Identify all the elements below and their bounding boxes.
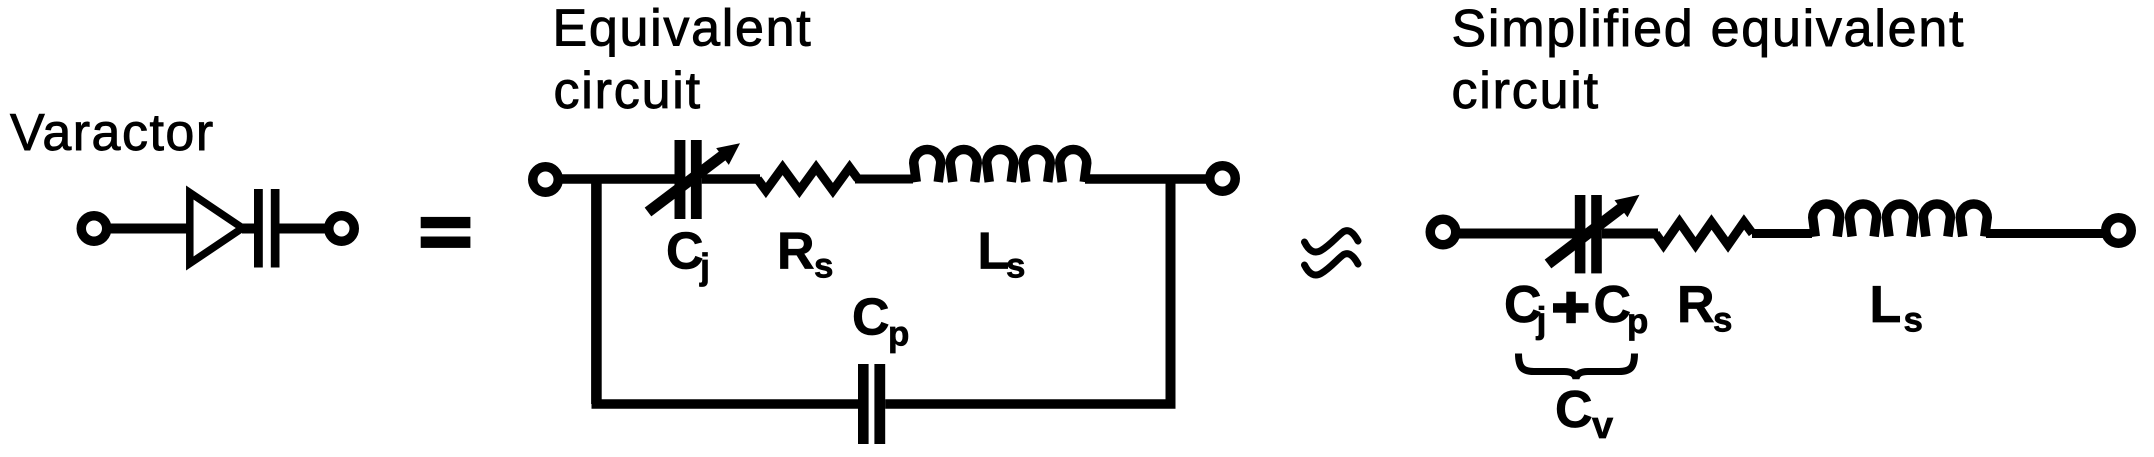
- simplified circuit: left terminal: [1430, 219, 1456, 245]
- svg-text:circuit: circuit: [1452, 62, 1600, 120]
- wire: [855, 175, 913, 184]
- wire: [1456, 229, 1576, 239]
- wire top right: [1085, 174, 1207, 184]
- svg-text:C: C: [1594, 276, 1632, 334]
- wire right branch: [1166, 179, 1176, 404]
- svg-text:Equivalent: Equivalent: [553, 0, 813, 58]
- svg-text:circuit: circuit: [554, 62, 702, 120]
- inductor Ls coils: [1813, 204, 1988, 237]
- svg-text:s: s: [1713, 301, 1732, 340]
- capacitor Cj bar 2: [691, 140, 702, 219]
- svg-text:j: j: [699, 246, 710, 287]
- equivalent circuit: right terminal: [1210, 166, 1236, 192]
- svg-text:L: L: [978, 223, 1010, 281]
- wire left branch: [591, 179, 602, 404]
- svg-text:L: L: [1870, 276, 1902, 334]
- svg-text:s: s: [1006, 247, 1025, 286]
- approx symbol (double tilde): [1305, 231, 1359, 252]
- svg-text:Varactor: Varactor: [10, 104, 215, 162]
- varactor D1 diode triangle: [190, 193, 243, 264]
- capacitor Cp bar 1: [858, 364, 869, 444]
- wire: [1986, 229, 2108, 238]
- varactor D1 right terminal: [329, 216, 355, 242]
- wire: [1602, 229, 1658, 239]
- svg-text:s: s: [1904, 301, 1923, 340]
- capacitor Cj arrow: [648, 143, 740, 212]
- capacitor Cv arrow: [1548, 195, 1640, 264]
- underbrace for Cv: [1519, 354, 1635, 379]
- svg-text:p: p: [1627, 302, 1648, 341]
- wire: [242, 224, 256, 234]
- varactor D1 cathode bar 1: [254, 189, 263, 268]
- varactor D1 left terminal: [81, 216, 107, 242]
- svg-text:v: v: [1592, 405, 1613, 447]
- wire bottom right: [885, 399, 1175, 409]
- capacitor Cv bar 2: [1591, 195, 1602, 273]
- svg-text:Simplified equivalent: Simplified equivalent: [1452, 0, 1966, 58]
- svg-text:R: R: [1677, 276, 1715, 334]
- svg-text:C: C: [666, 223, 704, 281]
- wire top left: [558, 174, 676, 184]
- equals sign: [421, 217, 471, 228]
- wire: [280, 224, 331, 234]
- svg-text:j: j: [1536, 300, 1547, 341]
- svg-text:R: R: [777, 223, 815, 281]
- capacitor Cp bar 2: [874, 364, 885, 444]
- resistor Rs zigzag: [758, 168, 859, 191]
- wire: [1752, 229, 1812, 238]
- capacitor Cj bar 1: [675, 140, 686, 219]
- simplified circuit: right terminal: [2106, 218, 2132, 244]
- wire: [106, 224, 190, 234]
- svg-text:C: C: [852, 288, 890, 346]
- equivalent circuit: left terminal: [533, 167, 559, 193]
- inductor Ls coils: [914, 150, 1087, 183]
- svg-text:s: s: [814, 247, 833, 286]
- capacitor Cv bar 1: [1575, 195, 1586, 273]
- svg-text:C: C: [1555, 381, 1593, 439]
- wire: [702, 174, 760, 184]
- wire bottom left: [592, 399, 859, 409]
- varactor D1 cathode bar 2: [271, 189, 280, 268]
- svg-text:p: p: [888, 314, 909, 353]
- resistor Rs zigzag: [1656, 222, 1753, 245]
